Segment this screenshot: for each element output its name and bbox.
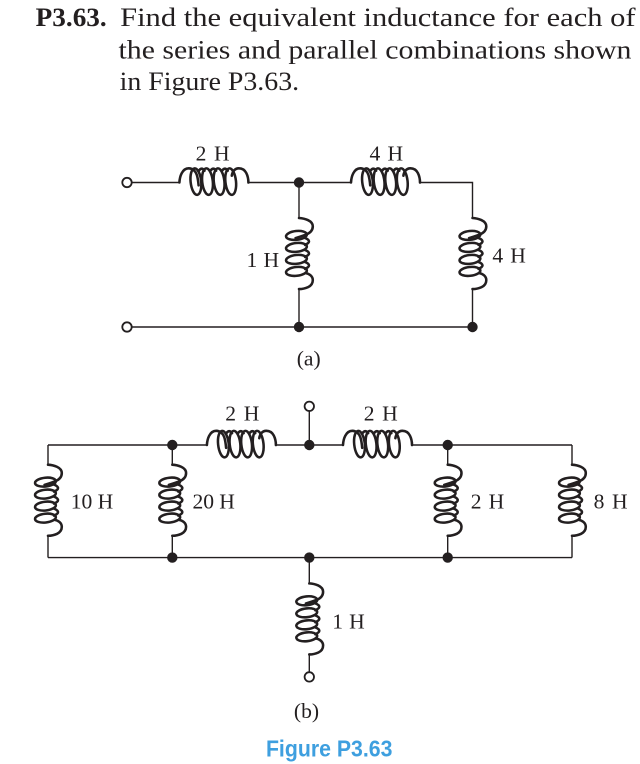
svg-text:1 H: 1 H — [247, 248, 280, 272]
wire: stem from bottom rail to 1H (b) — [308, 558, 310, 584]
wire: left rail bottom segment (b) — [47, 537, 49, 558]
inductor 20H (b) — [159, 465, 186, 536]
wire: between 2H and node A — [248, 182, 351, 184]
svg-text:P3.63.: P3.63. — [36, 3, 107, 32]
inductor 1H middle vertical (a) — [286, 218, 313, 289]
wire: below 1H to bottom rail — [298, 290, 300, 327]
svg-text:in Figure P3.63.: in Figure P3.63. — [120, 67, 300, 96]
wire: top rail right section (b) — [412, 444, 572, 446]
wire: below 4H right down to bottom rail — [472, 290, 474, 327]
terminal top-left (a) — [122, 178, 131, 187]
wire: right rail bottom segment (b) — [571, 537, 573, 558]
svg-text:Figure P3.63: Figure P3.63 — [266, 735, 393, 761]
inductor 2H (a) — [179, 168, 248, 196]
inductor 10H (b) — [35, 465, 62, 536]
wire: bottom rail (a) — [132, 326, 473, 328]
svg-text:2 H: 2 H — [364, 402, 398, 426]
svg-text:the series and parallel combin: the series and parallel combinations sho… — [119, 35, 632, 64]
wire: top rail left section (b) — [48, 444, 207, 446]
node dot A top (a) — [294, 177, 304, 187]
svg-text:2 H: 2 H — [196, 142, 230, 166]
inductor 1H bottom (b) — [296, 583, 323, 654]
node dot top rail center (b) — [304, 440, 314, 450]
svg-text:4 H: 4 H — [370, 142, 404, 166]
wire: node A stem down to 1H — [298, 183, 300, 219]
svg-text:(a): (a) — [297, 347, 321, 371]
node dot bottom rail center (b) — [304, 552, 314, 562]
wire: 2H vertical rail top segment (b) — [447, 445, 449, 465]
inductor 4H top (a) — [351, 168, 420, 196]
svg-text:20 H: 20 H — [193, 489, 235, 513]
inductor 2H right (b) — [343, 430, 412, 458]
node dot bottom right (a) — [467, 322, 477, 332]
svg-text:4 H: 4 H — [492, 244, 526, 268]
svg-text:8 H: 8 H — [594, 489, 628, 513]
svg-text:1 H: 1 H — [332, 609, 365, 633]
wire: below 1H to bottom terminal (b) — [308, 655, 310, 672]
wire: stem from top terminal to top rail — [308, 411, 310, 445]
terminal bottom (b) — [305, 672, 314, 681]
wire: 2H vertical rail bottom segment (b) — [447, 537, 449, 558]
terminal top (b) — [305, 402, 314, 411]
wire: between 2H left and center node (b) — [276, 444, 343, 446]
node dot bottom rail at 20H (b) — [167, 552, 177, 562]
svg-text:10 H: 10 H — [71, 489, 113, 513]
wire: left rail top segment (b) — [47, 445, 49, 465]
node dot top rail at 20H (b) — [167, 440, 177, 450]
wire: 4H to top-right corner down to coil — [420, 183, 473, 219]
inductor 2H left (b) — [207, 430, 276, 458]
node dot bottom rail at 2H vertical (b) — [443, 552, 453, 562]
wire: bottom rail (b) — [48, 557, 572, 559]
node dot top rail at 2H vertical (b) — [443, 440, 453, 450]
svg-text:2 H: 2 H — [225, 402, 259, 426]
node dot bottom middle (a) — [294, 322, 304, 332]
inductor 2H vertical (b) — [434, 465, 461, 536]
inductor 8H (b) — [559, 465, 586, 536]
svg-text:2 H: 2 H — [471, 489, 505, 513]
svg-text:Find the equivalent inductance: Find the equivalent inductance for each … — [120, 3, 636, 32]
wire: 20H rail bottom segment (b) — [171, 537, 173, 558]
terminal bottom-left (a) — [122, 322, 131, 331]
wire: top-left from terminal to 2H — [132, 182, 180, 184]
wire: 20H rail top segment (b) — [171, 445, 173, 465]
svg-text:(b): (b) — [294, 699, 319, 723]
inductor 4H right vertical (a) — [459, 218, 486, 289]
wire: right rail top segment (b) — [571, 445, 573, 465]
